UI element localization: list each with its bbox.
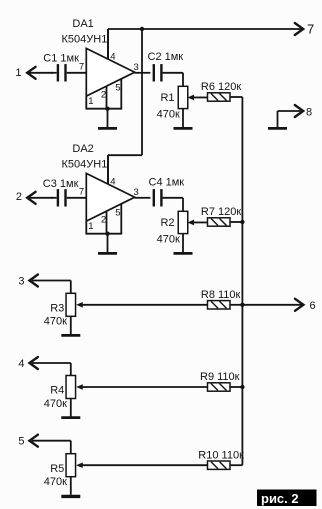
- svg-text:К504УН1: К504УН1: [62, 33, 108, 45]
- svg-text:470к: 470к: [157, 233, 180, 245]
- svg-text:6: 6: [310, 300, 316, 312]
- svg-text:5: 5: [115, 82, 120, 93]
- svg-text:4: 4: [18, 358, 24, 370]
- svg-text:1: 1: [88, 96, 93, 107]
- svg-text:4: 4: [110, 51, 115, 62]
- svg-text:4: 4: [110, 176, 115, 187]
- svg-text:C3 1мк: C3 1мк: [43, 178, 79, 190]
- svg-text:470к: 470к: [44, 316, 67, 328]
- svg-text:R8 110к: R8 110к: [201, 289, 241, 301]
- svg-text:DA2: DA2: [72, 143, 93, 155]
- svg-text:2: 2: [101, 90, 106, 101]
- svg-text:C2 1мк: C2 1мк: [148, 51, 184, 63]
- svg-text:К504УН1: К504УН1: [62, 158, 108, 170]
- svg-text:DA1: DA1: [72, 18, 93, 30]
- svg-text:R4: R4: [50, 385, 64, 397]
- svg-text:5: 5: [18, 436, 24, 448]
- svg-text:5: 5: [115, 207, 120, 218]
- svg-text:R7 120к: R7 120к: [201, 206, 241, 218]
- svg-text:3: 3: [134, 187, 139, 198]
- svg-text:470к: 470к: [44, 476, 67, 488]
- svg-text:R1: R1: [160, 92, 174, 104]
- svg-text:R3: R3: [50, 303, 64, 315]
- svg-text:2: 2: [16, 191, 22, 203]
- svg-text:R5: R5: [50, 463, 64, 475]
- svg-text:C4 1мк: C4 1мк: [149, 177, 185, 189]
- svg-text:7: 7: [79, 61, 84, 72]
- svg-text:3: 3: [18, 275, 24, 287]
- svg-text:R6 120к: R6 120к: [201, 81, 241, 93]
- svg-text:7: 7: [79, 186, 84, 197]
- svg-text:7: 7: [307, 21, 314, 36]
- svg-text:1: 1: [88, 221, 93, 232]
- svg-text:R10 110к: R10 110к: [198, 449, 244, 461]
- svg-text:470к: 470к: [157, 108, 180, 120]
- svg-text:1: 1: [15, 67, 21, 79]
- svg-text:C1 1мк: C1 1мк: [43, 53, 79, 65]
- svg-text:рис. 2: рис. 2: [261, 491, 299, 506]
- svg-text:R9 110к: R9 110к: [200, 371, 240, 383]
- svg-text:R2: R2: [160, 217, 174, 229]
- svg-text:2: 2: [101, 215, 106, 226]
- svg-text:470к: 470к: [44, 398, 67, 410]
- svg-text:8: 8: [306, 106, 312, 118]
- svg-text:3: 3: [134, 62, 139, 73]
